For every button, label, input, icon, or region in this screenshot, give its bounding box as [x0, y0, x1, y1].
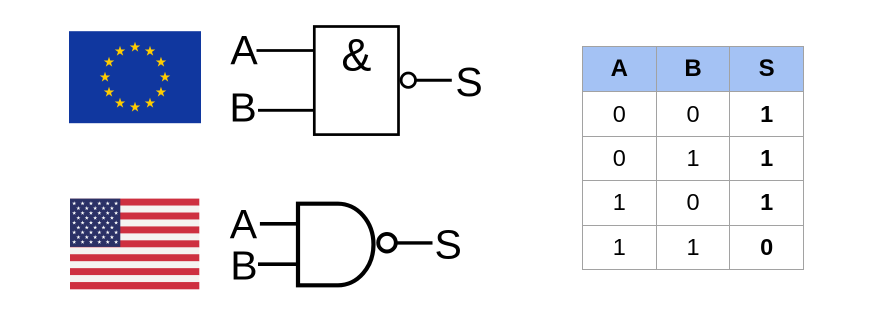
- svg-text:B: B: [230, 243, 257, 289]
- svg-text:&: &: [341, 30, 371, 81]
- svg-text:S: S: [435, 222, 462, 268]
- svg-text:S: S: [455, 59, 482, 105]
- svg-text:B: B: [229, 84, 256, 130]
- svg-text:A: A: [230, 27, 258, 73]
- svg-text:A: A: [230, 201, 258, 247]
